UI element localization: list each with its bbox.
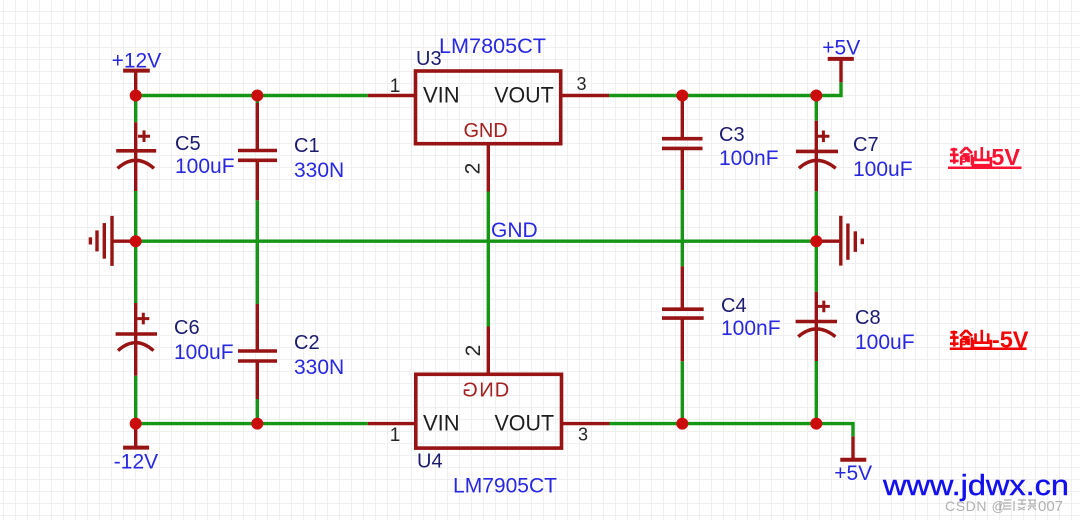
svg-text:100nF: 100nF [721,317,781,340]
annotation output 5V (shu glyph) [950,147,972,165]
wire column A verticals [134,96,137,424]
wire GND rail [136,239,817,242]
svg-text:C7: C7 [853,134,879,156]
pin name VIN U4 [423,410,460,435]
svg-text:-12V: -12V [114,451,158,474]
svg-text:GND: GND [464,120,508,142]
svg-text:C2: C2 [294,332,320,354]
svg-text:C4: C4 [721,295,747,317]
capacitor C7 [796,121,838,192]
wire column D verticals [815,96,818,424]
pin name GND U3 [464,120,508,142]
label C6 [174,317,234,364]
pin number 3 U4 [578,425,588,445]
annotation output -5V latin [992,327,1029,353]
svg-text:VOUT: VOUT [494,82,554,107]
pin 3 U3 [561,94,609,97]
watermark CSDN [945,498,1063,515]
pin 1 U4 [368,422,416,425]
wire bottom rail left [136,422,368,425]
capacitor C1 [238,103,277,200]
pin name VOUT U3 [494,82,554,107]
svg-text:330N: 330N [294,159,344,182]
annotation underline 5V [948,166,1022,169]
svg-text:U4: U4 [417,451,443,473]
label C2 [294,332,344,379]
label +12V [112,50,162,73]
svg-text:330N: 330N [294,356,344,379]
svg-text:GND: GND [491,219,538,242]
svg-text:+12V: +12V [112,50,162,73]
annotation underline -5V [950,348,1027,351]
svg-text:C6: C6 [174,317,200,339]
svg-text:C5: C5 [175,133,201,155]
annotation output 5V (chu glyph) [973,147,991,165]
label C5 [175,133,235,178]
power +5V bottom [840,436,866,459]
svg-text:LM7905CT: LM7905CT [453,475,557,498]
pin 2 U4 [487,327,490,375]
label C7 [853,134,913,181]
svg-text:G: G [462,380,478,402]
label -12V [114,451,158,474]
svg-text:100uF: 100uF [175,155,235,178]
op-amp U3 regulator box [416,71,561,144]
power -12V [123,424,149,448]
label C3 [719,124,779,170]
junction node dots bottom rail [130,418,823,430]
svg-text:VOUT: VOUT [495,410,555,435]
svg-text:+5V: +5V [822,37,860,60]
svg-text:100uF: 100uF [855,331,915,354]
svg-text:5V: 5V [991,144,1020,170]
svg-text:U3: U3 [416,48,442,70]
label C8 [855,307,915,354]
svg-text:3: 3 [578,425,588,445]
wire column B verticals [256,96,259,424]
wire bottom rail right [610,424,854,437]
pin 2 U3 [487,144,490,192]
pin number 2 U4 [462,345,485,357]
pin 3 U4 [562,422,610,425]
svg-text:100nF: 100nF [719,147,779,170]
junction node dots GND rail [130,235,823,247]
power +12V [123,71,150,96]
label C4 [721,295,781,340]
pin number 2 U3 [462,163,485,175]
capacitor C4 [662,266,704,361]
net label GND [491,219,538,242]
pin 1 U3 [368,94,416,97]
svg-text:3: 3 [576,74,586,94]
junction node dots top rail [130,90,823,102]
svg-text:www.jdwx.cn: www.jdwx.cn [882,470,1069,502]
label U4 [417,451,443,473]
pin name VOUT U4 [495,410,555,435]
svg-text:VIN: VIN [423,82,460,107]
svg-text:1: 1 [390,76,401,97]
pin number 1 U4 [390,425,401,446]
capacitor C3 [662,96,703,191]
pin name VIN U3 [423,82,460,107]
capacitor C2 [238,304,277,399]
svg-text:100uF: 100uF [174,341,234,364]
label LM7905CT [453,475,557,498]
wire GND column vertical [487,192,490,327]
watermark jdwx [882,470,1069,502]
ground right [816,216,862,266]
label U3 [416,48,442,70]
label C1 [294,135,344,182]
svg-text:2: 2 [462,163,485,175]
annotation output -5V (shu glyph) [950,330,972,348]
capacitor C8 [796,292,837,361]
svg-text:1: 1 [390,425,401,446]
label +5V bottom [834,462,872,485]
svg-text:D: D [495,380,509,402]
svg-text:N: N [479,380,493,402]
svg-text:C1: C1 [294,135,320,157]
wire column C verticals [681,190,684,424]
svg-text:LM7805CT: LM7805CT [439,35,546,58]
svg-text:VIN: VIN [423,410,460,435]
annotation output -5V (chu glyph) [973,330,991,348]
pin name GND U4 mirrored glyphs [462,380,509,402]
pin number 1 U3 [390,76,401,97]
op-amp U4 regulator box [416,374,562,448]
svg-text:C3: C3 [719,124,745,146]
svg-text:+5V: +5V [834,462,872,485]
label LM7805CT [439,35,546,58]
svg-text:100uF: 100uF [853,158,913,181]
svg-text:2: 2 [462,345,485,357]
capacitor C6 [116,303,157,376]
annotation output 5V latin [991,144,1020,170]
ground left [90,216,135,266]
capacitor C5 [116,122,156,191]
label +5V top [822,37,860,60]
wire top rail left [136,94,368,97]
power +5V top [828,59,854,82]
pin number 3 U3 [576,74,586,94]
svg-text:C8: C8 [855,307,881,329]
wire top rail right [609,82,841,95]
